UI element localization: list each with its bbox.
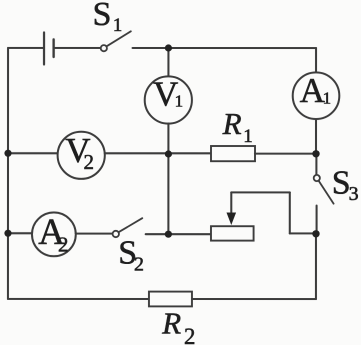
svg-text:2: 2	[83, 150, 94, 174]
wire junction to S3 pivot	[315, 154, 317, 175]
svg-text:S: S	[93, 0, 112, 33]
svg-text:1: 1	[323, 89, 332, 108]
wire V1 drop from top rail	[167, 48, 169, 77]
wire A1 to middle-rail junction	[315, 119, 317, 154]
switch S2 pivot	[113, 231, 119, 237]
wire slider loop vertical down	[289, 192, 291, 233]
wire battery to switch S1	[55, 47, 101, 49]
node junction middle rail right	[312, 150, 319, 157]
switch S2 blade	[119, 218, 143, 232]
wire V1 to middle rail	[167, 123, 169, 153]
wire junction to rheostat	[168, 233, 211, 235]
wire middle rail: left to V2	[8, 152, 58, 154]
switch S3 blade	[319, 181, 334, 204]
resistor R2 box	[149, 292, 192, 307]
node junction above V1	[165, 44, 172, 51]
wire top rail left segment	[8, 47, 43, 49]
node junction branch rail at middle column	[165, 231, 172, 238]
voltmeter V1 circle	[145, 76, 192, 123]
battery short plate	[52, 39, 54, 57]
wire bottom rail left segment	[8, 298, 149, 300]
wire S3 lower terminal to junction	[316, 206, 318, 234]
svg-text:1: 1	[175, 92, 184, 111]
wire S2 to middle-column junction	[146, 233, 169, 235]
svg-text:2: 2	[184, 324, 196, 345]
wire left vertical rail	[7, 48, 9, 299]
resistor R1 box	[211, 146, 255, 161]
wire right rail bottom	[315, 234, 317, 299]
battery long plate	[43, 32, 45, 64]
wire branch rail: left to A2	[8, 232, 32, 234]
svg-text:2: 2	[58, 233, 69, 257]
node junction middle rail at V1 column	[165, 150, 172, 157]
wire R1 to right junction	[255, 153, 316, 155]
wire middle column (middle rail to bottom branch rail)	[167, 154, 169, 234]
node junction middle rail left	[4, 150, 11, 157]
wire A2 to S2	[76, 233, 113, 235]
wire slider loop to right junction	[290, 232, 316, 234]
svg-text:R: R	[222, 106, 242, 141]
ammeter A2 circle	[32, 212, 76, 256]
wire right rail top (corner to A1)	[315, 48, 317, 72]
rheostat slider wire top horizontal	[231, 191, 289, 193]
switch S3 pivot	[314, 175, 320, 181]
rheostat slider arrowhead	[226, 213, 236, 226]
wire V2 to R1	[105, 152, 211, 154]
rheostat slider shaft	[230, 192, 232, 214]
switch S1 pivot	[101, 45, 107, 51]
node junction branch rail left	[4, 230, 11, 237]
wire top rail right segment	[133, 47, 317, 49]
switch S1 blade	[107, 31, 131, 46]
svg-text:3: 3	[349, 183, 359, 205]
ammeter A1 circle	[293, 72, 340, 119]
wire bottom rail right segment	[192, 298, 316, 300]
node junction right rail at slider loop	[312, 230, 319, 237]
svg-text:1: 1	[113, 15, 123, 36]
rheostat body box	[211, 226, 254, 240]
svg-text:2: 2	[134, 254, 144, 276]
svg-text:1: 1	[243, 126, 253, 147]
voltmeter V2 circle	[58, 132, 105, 179]
svg-text:R: R	[161, 306, 181, 341]
